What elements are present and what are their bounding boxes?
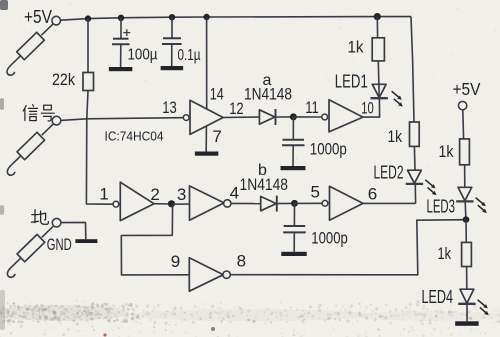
ground test probe lead [7,226,53,277]
svg-text:12: 12 [229,99,244,118]
LED3 [456,187,473,201]
wire pin 8 wraps to LED3 junction [230,220,466,275]
svg-text:8: 8 [237,251,246,270]
ground symbol under 1000p a [281,166,306,170]
junction node LED1 branch tap [374,13,381,20]
diode b 1N4148 [261,196,277,212]
junction node 3 [168,200,175,207]
pin 14 power lead [206,17,208,109]
wire node 11 to pin 11 [293,116,321,118]
wire pin 2 to node 3 [154,203,171,205]
wire rail corner down to 1k (LED2 branch) [411,17,414,122]
diode a 1N4148 [259,109,275,125]
wire diode a to node 11 [276,116,294,118]
capacitor 100u [112,29,130,67]
LED2 cathode lead down to pin 6 wire [414,184,416,204]
wire pin 12 to diode a [223,116,259,119]
op-amp U1E inverter triangle [330,186,364,220]
svg-text:+5V: +5V [24,7,52,27]
+5V right terminal [458,101,466,109]
svg-text:IC:74HC04: IC:74HC04 [105,129,164,144]
resistor 22k [83,73,94,91]
svg-text:1k: 1k [439,142,454,161]
LED4 [458,289,475,304]
op-amp U1F inverter output bubble pin 8 [223,271,230,278]
wire signal input to pin 13 [61,118,183,121]
capacitor 1000p branch a [282,117,305,166]
resistor 1k lead (LED4 branch) [465,220,467,243]
capacitor 0.1u lead [171,17,173,38]
svg-text:1N4148: 1N4148 [244,85,292,104]
svg-text:7: 7 [212,127,221,146]
svg-text:9: 9 [171,252,180,271]
junction node 11 [290,113,297,120]
junction node 0.1u tap [169,14,175,20]
svg-text:+5V: +5V [453,79,481,99]
wire node 5 to pin 5 [295,202,323,204]
svg-text:GND: GND [47,235,72,254]
op-amp U1A inverter input bubble pin 13 [183,115,189,121]
op-amp U1C inverter triangle [120,182,154,220]
svg-text:LED3: LED3 [427,195,456,216]
op-amp U1B inverter triangle [329,100,363,132]
+5V test probe lead [7,24,53,75]
LED3 anode lead [464,165,466,187]
LED2 [406,170,423,184]
LED1 anode lead [377,61,380,98]
svg-text:13: 13 [162,98,177,117]
junction node below LED3 [463,216,470,223]
ground symbol under 0.1u [161,66,184,70]
svg-text:100µ: 100µ [128,46,158,63]
svg-text:LED1: LED1 [335,70,368,91]
capacitor 1000p branch b [283,203,306,251]
wire ground terminal to ground symbol [61,222,86,239]
svg-text:5: 5 [311,182,320,201]
svg-text:11: 11 [305,98,319,117]
capacitor 0.1u [162,38,182,66]
resistor 1k upper lead (LED1 branch) [376,17,378,38]
svg-text:1k: 1k [348,38,364,57]
LED4 anode lead [466,267,468,290]
op-amp U1D inverter triangle [190,186,225,220]
resistor 1k LED1 branch [372,38,384,61]
svg-text:2: 2 [150,185,159,204]
resistor 1k (LED3 branch) [460,139,470,165]
ground symbol under 1000p b [281,252,307,256]
LED3 cathode lead [464,201,467,219]
LED3 light arrows [476,198,487,213]
wire pin 10 to LED1 cathode [363,99,380,118]
LED4 cathode lead [466,304,468,322]
resistor 1k LED2 branch [410,122,420,146]
resistor 22k upper lead [87,19,89,73]
+5V terminal [52,16,61,25]
ground symbol pin 7 [195,152,219,156]
junction node 5 [291,200,298,207]
wire pin 6 to LED2 cathode [363,202,416,204]
op-amp U1E inverter input bubble pin 5 [322,200,328,206]
LED4 light arrows [478,300,489,315]
svg-text:6: 6 [368,184,377,203]
wire 22k to signal node and down to pin 1 [86,91,113,205]
capacitor 100u lead [120,18,122,39]
LED1 [371,84,388,98]
op-amp U1F inverter triangle [189,258,223,292]
svg-text:LED4: LED4 [422,286,454,307]
ground terminal [52,218,61,227]
junction node 100u tap [118,15,124,21]
right +5V lead [462,110,465,139]
wire node 3 to pin 3 [173,203,190,205]
svg-text:1k: 1k [388,127,403,146]
svg-text:1k: 1k [438,244,452,263]
svg-text:4: 4 [230,184,239,203]
signal (Xin Hao) label [23,105,54,121]
svg-text:1: 1 [99,185,108,204]
junction node 22k tap [85,15,91,21]
op-amp U1B inverter input bubble pin 11 [322,114,328,120]
LED2 light arrows [425,180,436,195]
svg-text:1N4148: 1N4148 [240,175,289,194]
op-amp U1A inverter triangle [190,100,223,134]
svg-text:10: 10 [361,99,374,118]
+5V top power rail wire [61,17,411,21]
signal input terminal [52,116,61,125]
op-amp U1D inverter output bubble pin 4 [224,200,231,207]
junction node pin14 tap [203,14,209,20]
wire node 3 feedback to pin 9 [121,204,189,275]
ground (Di) label [31,210,48,224]
ground symbol under 100u [109,67,133,71]
svg-text:14: 14 [210,84,224,103]
wire diode b to node 5 [277,202,295,204]
svg-text:1000p: 1000p [310,139,347,158]
svg-text:0.1µ: 0.1µ [178,47,201,64]
ground symbol under LED4 [455,321,479,326]
svg-text:22k: 22k [52,70,75,89]
svg-text:LED2: LED2 [374,161,404,182]
LED2 anode lead [413,146,416,170]
wire pin 4 to diode b [231,202,261,204]
signal test probe lead [7,124,53,175]
LED1 light arrows [392,91,403,106]
svg-text:3: 3 [177,185,186,204]
ground symbol at GND terminal [75,239,97,243]
svg-text:1000p: 1000p [311,229,348,248]
op-amp U1C inverter input bubble pin 1 [113,201,119,207]
pin 7 ground lead [205,126,207,151]
resistor 1k (LED4 branch) [462,242,472,266]
